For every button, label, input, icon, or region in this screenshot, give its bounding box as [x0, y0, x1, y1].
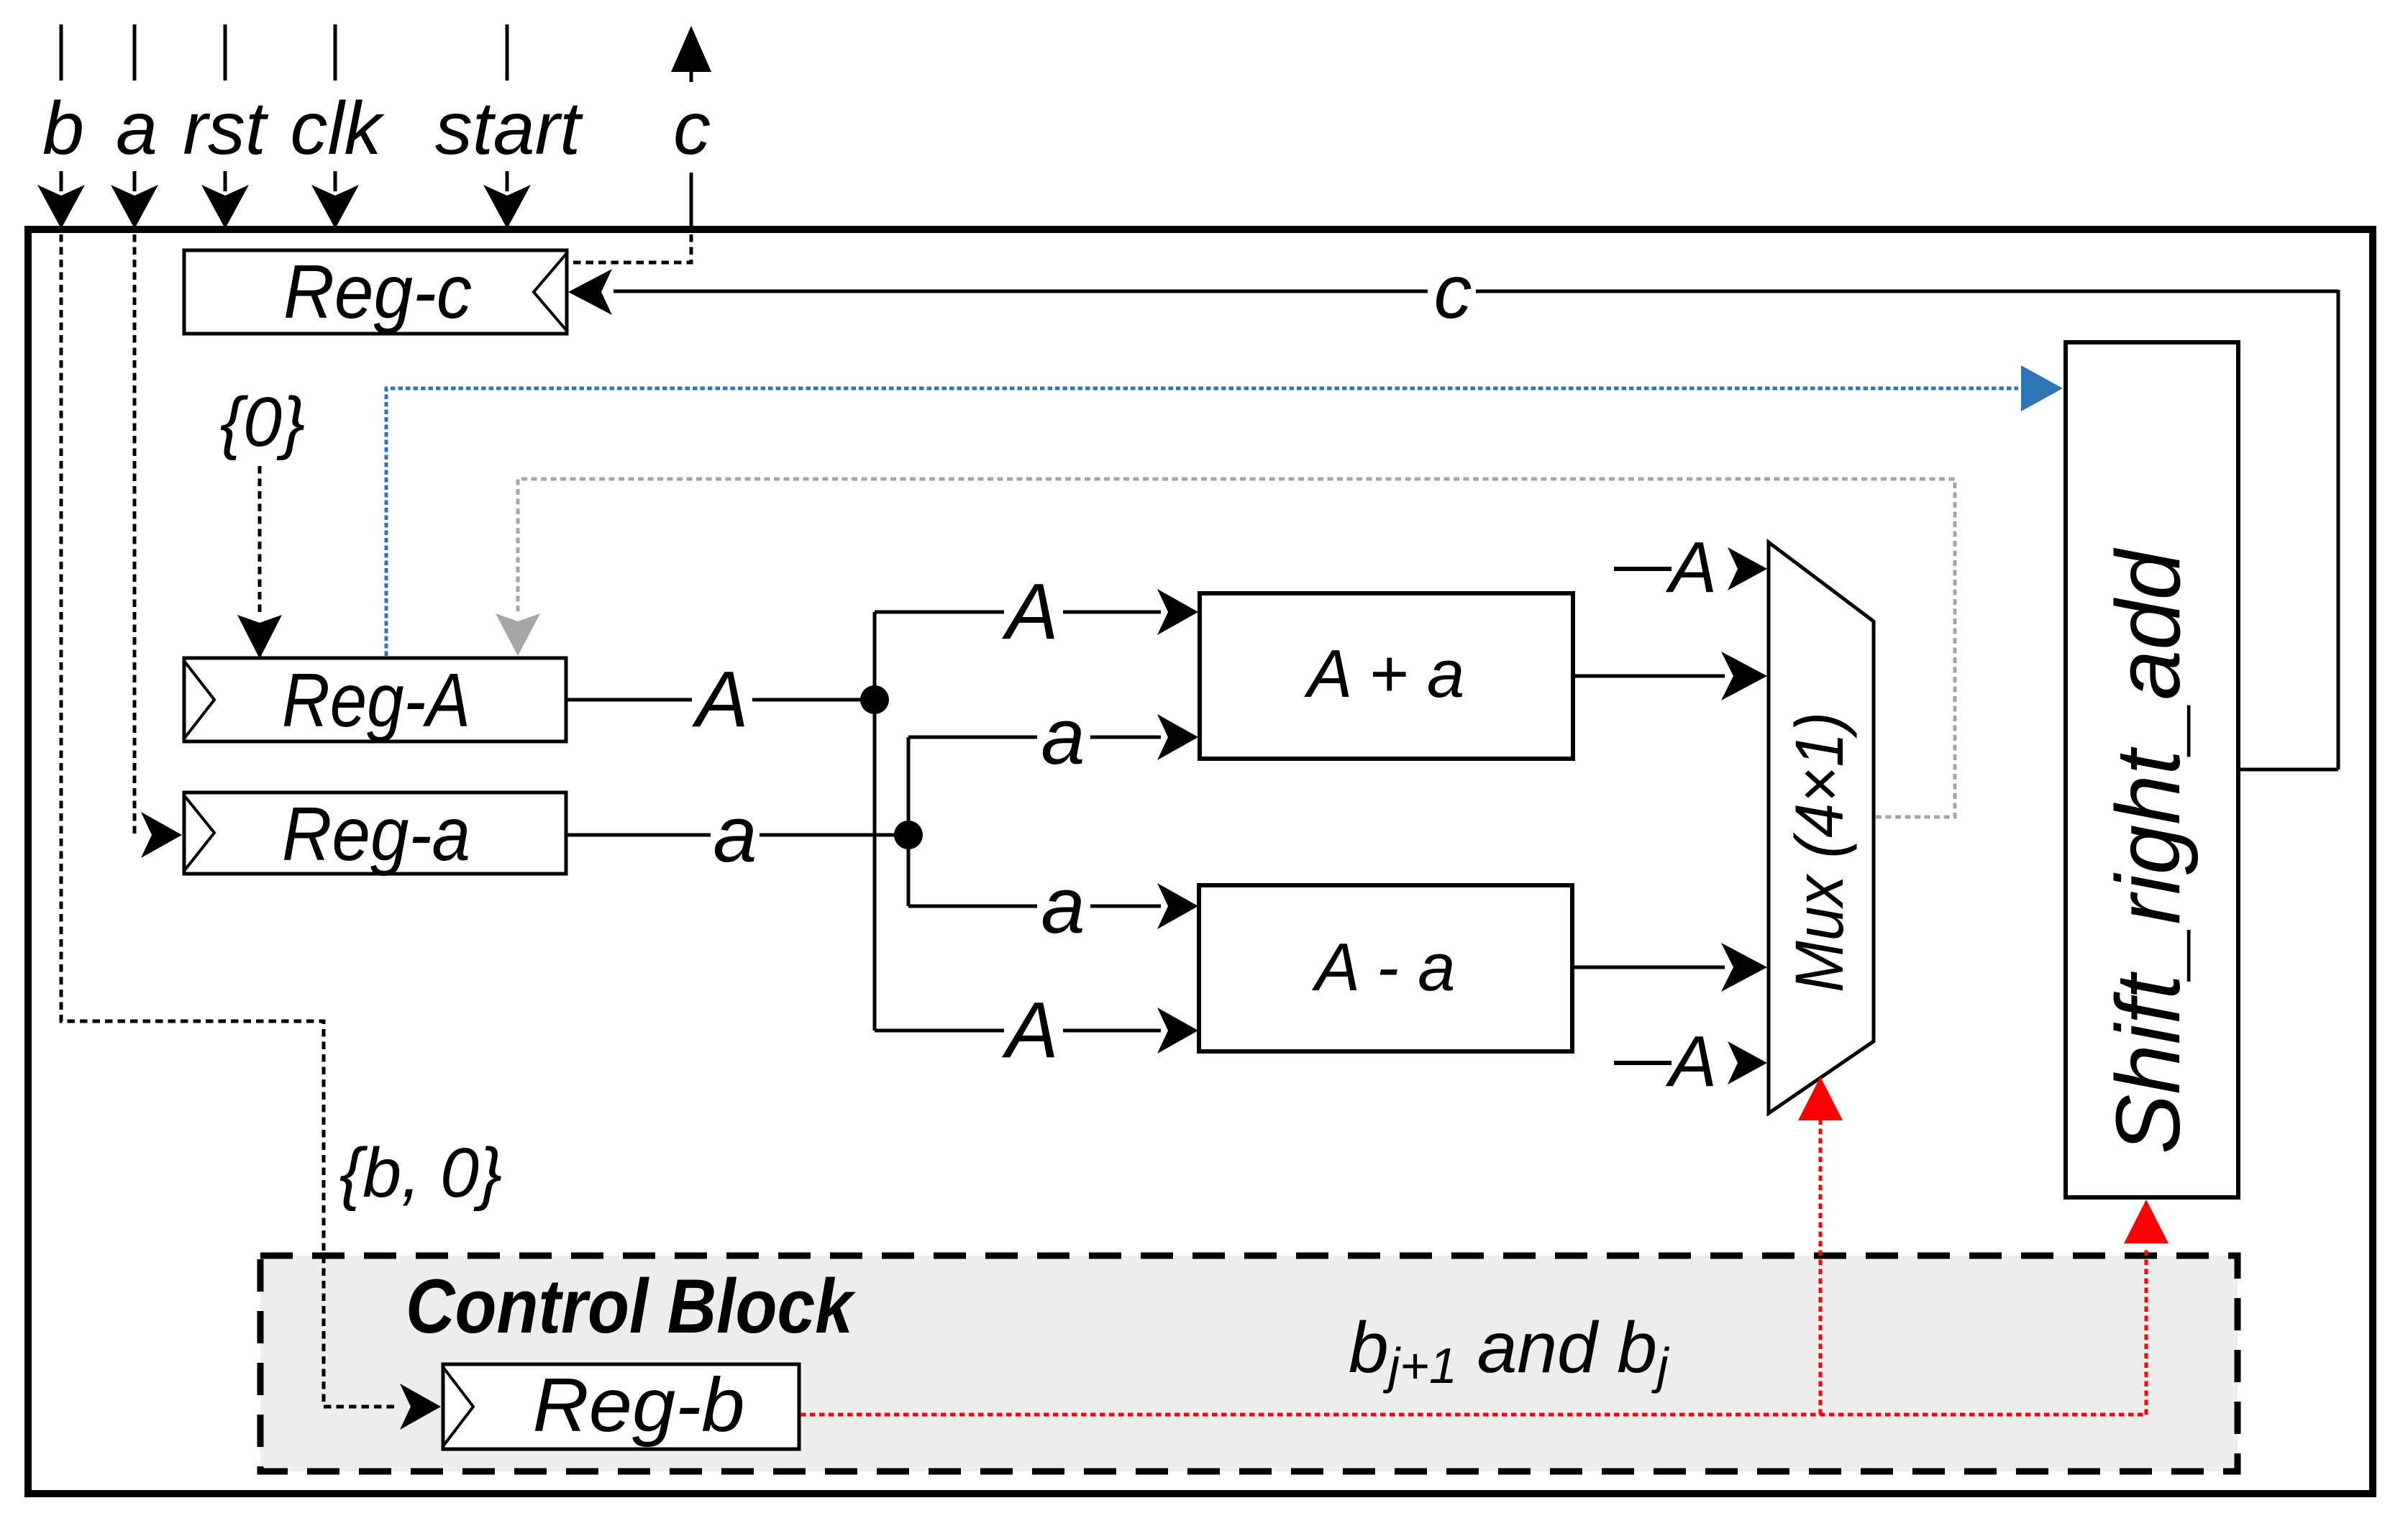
- svg-text:A: A: [1666, 1021, 1718, 1102]
- svg-text:clk: clk: [290, 87, 385, 170]
- svg-text:b: b: [42, 87, 84, 170]
- svg-text:a: a: [713, 790, 757, 879]
- register Reg-A: [184, 658, 566, 743]
- input pin start tick: [506, 24, 509, 81]
- shift block Shift_right_add: [2066, 342, 2238, 1197]
- adder block A + a: [1200, 593, 1573, 759]
- input arrow b into box: [37, 171, 85, 229]
- svg-text:c: c: [673, 87, 711, 170]
- wire -A top input to Mux: [1614, 547, 1767, 590]
- mux Mux (4x1): [1769, 542, 1874, 1113]
- svg-text:a: a: [116, 87, 158, 170]
- wire a from Reg-a: [566, 833, 908, 837]
- svg-text:rst: rst: [183, 87, 269, 170]
- svg-text:{0}: {0}: [220, 383, 306, 461]
- junction dot A: [860, 685, 889, 714]
- wire {0} dashed into Reg-A: [237, 466, 282, 659]
- wire red select to Mux: [1798, 1077, 1843, 1415]
- input pin b tick: [60, 24, 63, 81]
- input pin rst tick: [224, 24, 227, 81]
- wire a input dotted into Reg-a: [134, 234, 182, 858]
- output pin c up-arrow: [671, 26, 711, 82]
- wire branch A into adder top input: [875, 589, 1198, 635]
- wire branch A into subtractor bottom input: [875, 1008, 1198, 1054]
- input arrow rst into box: [201, 171, 249, 229]
- input arrow a into box: [111, 171, 158, 229]
- svg-text:Reg-b: Reg-b: [533, 1363, 745, 1448]
- svg-text:A: A: [1001, 986, 1058, 1074]
- wire A vertical branch: [873, 612, 877, 1031]
- wire branch a into subtractor top input: [908, 883, 1198, 929]
- wire subtractor output to Mux: [1573, 943, 1767, 992]
- wire red select to Shift_right_add: [2124, 1200, 2168, 1415]
- svg-text:a: a: [1041, 693, 1085, 781]
- wire gray Mux output feedback to Reg-A: [496, 479, 1955, 817]
- wire a vertical branch: [907, 737, 911, 906]
- register Reg-a: [184, 792, 566, 877]
- wire c dotted from Reg-c to output pin: [569, 234, 691, 262]
- svg-text:start: start: [435, 87, 583, 170]
- wire branch a into adder bottom input: [908, 714, 1198, 760]
- svg-text:Reg-a: Reg-a: [282, 792, 470, 877]
- svg-text:A + a: A + a: [1304, 636, 1465, 711]
- wire c output stem through border: [690, 173, 693, 229]
- arrowhead b into Reg-b: [400, 1384, 441, 1430]
- wire adder output to Mux: [1573, 652, 1767, 700]
- svg-text:{b, 0}: {b, 0}: [339, 1133, 503, 1212]
- svg-text:A: A: [691, 655, 748, 744]
- svg-text:A - a: A - a: [1311, 929, 1455, 1005]
- wire -A bottom input to Mux: [1614, 1041, 1767, 1084]
- junction dot a: [894, 821, 923, 849]
- svg-text:c: c: [1434, 250, 1472, 334]
- wire red select from Reg-b: [801, 1413, 2146, 1417]
- wire c feedback from Shift_right_add to Reg-c: [568, 269, 2338, 769]
- wire A from Reg-A: [566, 698, 875, 702]
- svg-text:Reg-A: Reg-A: [282, 658, 470, 743]
- register Reg-c: [184, 250, 567, 334]
- svg-text:Control Block: Control Block: [406, 1263, 856, 1349]
- input arrow start into box: [483, 171, 531, 229]
- subtractor block A - a: [1199, 885, 1572, 1051]
- svg-text:Shift_right_add: Shift_right_add: [2097, 547, 2199, 1154]
- svg-text:A: A: [1001, 567, 1058, 656]
- svg-text:Reg-c: Reg-c: [283, 250, 472, 334]
- input pin a tick: [133, 24, 137, 81]
- svg-text:a: a: [1041, 862, 1085, 950]
- wire b input dotted into Reg-b: [61, 234, 397, 1407]
- input pin clk tick: [334, 24, 337, 81]
- wire blue A to Shift_right_add: [386, 365, 2063, 656]
- input arrow clk into box: [311, 171, 359, 229]
- register Reg-b: [443, 1363, 799, 1449]
- svg-text:Mux (4×1): Mux (4×1): [1782, 712, 1858, 992]
- control block box: [260, 1256, 2238, 1471]
- svg-text:A: A: [1666, 527, 1718, 608]
